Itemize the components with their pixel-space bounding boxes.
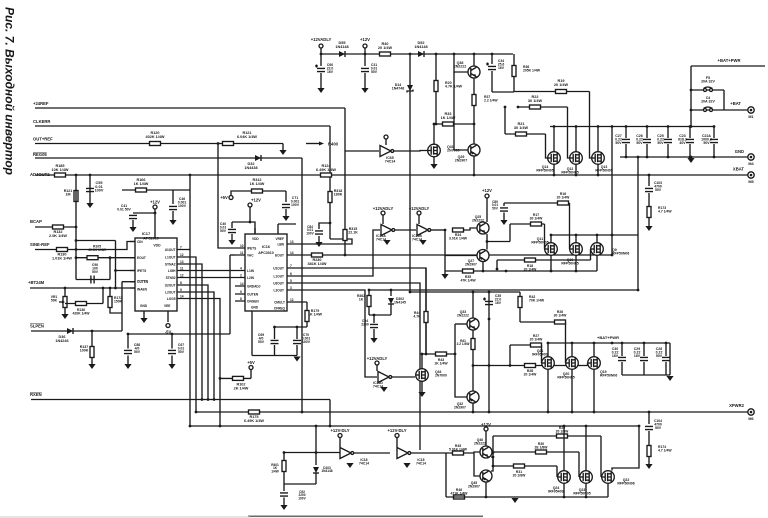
svg-text:R444.7K: R444.7K [413, 311, 421, 318]
svg-text:C300.2216V: C300.2216V [612, 347, 619, 358]
wire +5V riser [250, 370, 252, 378]
wire CLKERR drop [329, 126, 331, 239]
ground row2 [441, 274, 448, 279]
svg-text:C890.0150V: C890.0150V [492, 200, 499, 210]
resistor R31 [514, 464, 525, 468]
junction R102 [219, 377, 222, 380]
wire R18 net [497, 259, 591, 261]
wire row4 base col [445, 453, 447, 497]
ground IC16A [383, 240, 390, 245]
junction C104 [648, 411, 651, 414]
wire OUTEN feeder [122, 281, 135, 283]
junctions row3 top rail [409, 291, 491, 294]
wire Q25 emitter node [486, 234, 488, 250]
wire IC16A out [394, 229, 416, 231]
svg-text:APC2010: APC2010 [143, 237, 159, 241]
wire C104 lead [648, 412, 650, 424]
svg-text:IC17: IC17 [142, 231, 151, 236]
junction VDD [154, 212, 157, 215]
svg-text:XBAT: XBAT [733, 167, 745, 172]
wire R401 lead [283, 453, 285, 462]
wire R44 bottom [425, 323, 427, 355]
resistor R22 [530, 105, 541, 109]
wire row2 riser b [637, 157, 639, 290]
resistor R18 [525, 258, 536, 262]
mesh junctions [189, 398, 304, 427]
wire fuse column [690, 66, 692, 127]
junctions BCAP column [75, 239, 78, 259]
capacitor C90 [91, 276, 94, 284]
wire C92 lead [283, 484, 285, 491]
wire top rail [321, 53, 513, 55]
wire C46 bottom [172, 211, 174, 220]
wire row3 top rail [410, 291, 520, 293]
wire Q23 drain [585, 426, 587, 471]
junctions GND rail [625, 156, 716, 159]
wire R172 bottom [110, 308, 122, 314]
wire Q38 base [454, 54, 468, 72]
junction C94 [373, 314, 376, 317]
svg-text:VDD: VDD [252, 237, 259, 241]
svg-text:EOUT: EOUT [275, 254, 284, 258]
wire C67 bottom [171, 356, 173, 365]
wire +24REF to IC65 [345, 150, 379, 152]
power +12VADLY row4 b [387, 428, 406, 438]
op-amp U IC16 APC3010 box [245, 234, 287, 311]
wire R21 column [504, 107, 506, 134]
wire U1OUT drop [189, 175, 191, 426]
mosfet Q10 [570, 243, 583, 256]
junction +12V C40 [249, 221, 252, 224]
wire Q38 collector [473, 54, 475, 66]
ground R173 [645, 226, 652, 231]
wire C26 top lead [646, 127, 648, 139]
wire C27 top lead [625, 127, 627, 139]
inverter IC18A 74C14 [340, 448, 354, 459]
inverter IC65 74C14 [380, 146, 394, 157]
wire VEE lead [167, 311, 169, 322]
capacitor C60 [315, 65, 325, 72]
wire L2OUT drop [188, 292, 214, 400]
junctions row2 sources [482, 270, 578, 273]
wire C29 bottom lead [643, 362, 645, 375]
power +12VADLY row4 a [330, 428, 349, 438]
wire Q19 drain [593, 343, 595, 357]
mosfet Q20 [566, 357, 579, 370]
junctions row4 sources [485, 496, 588, 499]
svg-text:GND: GND [251, 306, 259, 310]
resistor R20 [434, 81, 438, 92]
svg-text:U1OUT: U1OUT [273, 267, 284, 271]
power +5V R312 [220, 195, 233, 200]
resistor R40 [380, 52, 391, 56]
wire RXEN bus [31, 399, 330, 401]
svg-text:+12V: +12V [482, 188, 492, 193]
svg-text:L3OUT: L3OUT [274, 289, 285, 293]
svg-text:VAC: VAC [247, 254, 254, 258]
svg-text:STN52: STN52 [166, 276, 176, 280]
transistor Q25 [477, 222, 489, 234]
ground row4 [511, 498, 518, 503]
wire CLKERR bus [35, 125, 330, 127]
wire Q27 base stub [445, 255, 477, 257]
svg-text:IPETS: IPETS [137, 269, 146, 273]
mosfet Q22 [602, 471, 615, 484]
wire Q45 base [474, 453, 480, 476]
wire CLKERR to LBN [288, 239, 352, 244]
mosfet Q9 [591, 243, 604, 256]
wire R17 riser [509, 224, 511, 242]
svg-text:VR150K: VR150K [51, 295, 58, 302]
wire C34 bottom [491, 71, 493, 92]
ground Q31 [430, 164, 437, 169]
wire row4 node riser [492, 436, 494, 466]
resistor R315 [343, 230, 347, 241]
junctions fuse column [690, 89, 693, 128]
resistor R174 [647, 446, 651, 457]
svg-text:IC1874C14: IC1874C14 [416, 458, 426, 465]
junction OUT+REF [217, 142, 220, 145]
svg-text:+12VADLY: +12VADLY [409, 206, 430, 211]
wire C90 right col [109, 258, 111, 280]
wire Q46 base [474, 452, 480, 453]
wire +24REF drop [344, 108, 346, 255]
wire R401 bottom rail [284, 483, 316, 485]
IC17 right pin stubs [177, 250, 188, 299]
capacitor CT1 [282, 204, 290, 207]
resistor R401 [282, 461, 286, 472]
wire C28 top lead [665, 343, 667, 356]
svg-text:C260.2250V: C260.2250V [636, 134, 643, 145]
capacitor C25 [664, 139, 672, 142]
svg-text:CIN: CIN [137, 240, 143, 244]
wire R312 net [237, 190, 286, 192]
wire R21 net [505, 133, 546, 135]
wire Q21 drain [547, 343, 549, 357]
ground C69 C70 [293, 357, 300, 362]
inverter IC16B 74C14 [417, 225, 431, 236]
wire R172 top [109, 288, 111, 296]
svg-text:+12VADLY: +12VADLY [373, 206, 394, 211]
wire CMULT rail [275, 326, 308, 328]
wire R22 net [518, 106, 568, 108]
wire Q10 source [575, 256, 577, 272]
wire REG05 bus [35, 157, 302, 159]
mosfet Q11 [545, 243, 558, 256]
wire R166 net [122, 189, 190, 191]
wire Q24 source [563, 484, 565, 498]
wire R20 column [435, 54, 437, 124]
wire SINE-REF bus [35, 249, 76, 251]
svg-text:L1OUT: L1OUT [165, 256, 176, 260]
wire IC65 top [385, 139, 387, 145]
capacitor C67 [168, 350, 176, 353]
wire U2OUT drop [188, 285, 208, 400]
potentiometer VR1 [63, 297, 67, 308]
wire R17 to Q11 gate [544, 224, 546, 249]
wire row3 node rail [473, 365, 588, 367]
diode D36 [67, 328, 73, 334]
wire +24REF bus [35, 107, 345, 109]
transistor Q38 [468, 66, 480, 78]
resistor R45 [453, 451, 464, 455]
wire C22A bottom lead [713, 144, 715, 157]
ground C84 [315, 242, 322, 247]
mosfet Q31 2N7000 [428, 144, 441, 157]
wire Q12 source [575, 165, 577, 176]
svg-text:U2OUT: U2OUT [165, 284, 176, 288]
IC16 top pin stubs [255, 224, 278, 234]
wire C84 bottom [318, 236, 320, 242]
IC16 left pin stubs [235, 248, 245, 301]
power +12VADLY top [311, 37, 332, 48]
junctions R401 rail [283, 451, 318, 454]
wire R22 to Q12 gate [568, 107, 570, 158]
capacitor C69 [271, 340, 279, 343]
wire R179 lead [306, 302, 308, 311]
power pin IC65 [384, 135, 388, 139]
wire R179 bottom [306, 322, 308, 328]
wire RXEN drop [329, 400, 331, 427]
wire LOG5 drop [188, 299, 220, 427]
svg-text:XPWR2: XPWR2 [729, 403, 745, 408]
svg-text:IPETS: IPETS [247, 247, 256, 251]
svg-text:SINE-REF: SINE-REF [30, 242, 50, 247]
wire Q29 base [454, 72, 468, 150]
capacitor C31 [361, 68, 369, 71]
wire VREF [278, 223, 296, 225]
wire C67 leads [171, 334, 173, 349]
wire R105 rail [76, 257, 110, 259]
svg-text:L1IN: L1IN [247, 269, 255, 273]
capacitor C55 [86, 188, 94, 191]
wire C26 bottom lead [646, 144, 648, 157]
diode D32 [255, 155, 261, 161]
wire R136 riser [102, 288, 104, 304]
svg-text:GND: GND [140, 304, 148, 308]
wire VDD lead [154, 209, 156, 238]
wire C27 bottom lead [625, 144, 627, 157]
wire Q46 collector [485, 431, 487, 446]
ground C67 [168, 364, 175, 369]
wire R27 net [510, 344, 542, 346]
wire R26 to Q20 gate [565, 322, 567, 363]
svg-text:C670.0150V: C670.0150V [178, 343, 185, 354]
wire R27 to Q21 gate [541, 345, 543, 363]
ground C88 [124, 364, 131, 369]
resistor R137 [90, 347, 94, 358]
wire C30 top lead [621, 343, 623, 356]
wire U3OUT net [288, 283, 420, 450]
wire C92 bottom [283, 498, 285, 506]
wire R16 net [504, 202, 570, 204]
capacitor C26 [643, 139, 651, 142]
transistor Q32 pnp [467, 391, 479, 403]
wire Q32 base tie [455, 324, 467, 397]
svg-text:VEE: VEE [164, 304, 170, 308]
transistor Q27 pnp [477, 250, 489, 262]
wire C84 lead [319, 223, 330, 229]
resistor R28 [525, 364, 536, 368]
capacitor C22A [710, 139, 718, 142]
transistor Q46 [480, 446, 492, 458]
svg-text:L2IN: L2IN [247, 276, 255, 280]
op-amp U IC17 APC2010 box [135, 238, 177, 311]
wire R42 lead [519, 292, 521, 297]
capacitor C94 [370, 324, 378, 327]
resistor R42 [518, 297, 522, 308]
wire C34 lead [491, 54, 493, 64]
wire R362 lead [368, 290, 370, 296]
wire Q9 source [596, 256, 598, 272]
wire Q10 drain [575, 235, 577, 243]
wire IC17 GND lead [143, 311, 145, 318]
capacitor C41 [129, 215, 137, 218]
capacitor C30 [618, 357, 626, 360]
wire L1OUT net [288, 230, 380, 276]
svg-text:SLPEN: SLPEN [30, 324, 44, 329]
svg-text:RXEN: RXEN [30, 392, 42, 397]
wire C69 lead [274, 327, 276, 339]
junctions drain rail row1 [553, 125, 716, 128]
wire Q25 collector [486, 198, 488, 222]
svg-text:R318180K: R318180K [334, 189, 343, 197]
wire R173 bottom [648, 218, 650, 227]
wire IC16B out [430, 229, 445, 231]
wire ADJOUT2 / XBAT bus [35, 174, 748, 176]
wire C40 bottom [231, 234, 233, 240]
wire VAC feeder [230, 254, 235, 256]
wire IC18A top [339, 438, 341, 448]
svg-text:GNDADJ: GNDADJ [247, 285, 261, 289]
junctions R362 D302 [368, 289, 640, 292]
capacitor C29 [640, 357, 648, 360]
svg-text:GND: GND [735, 149, 744, 154]
svg-text:+BAT+PWR: +BAT+PWR [597, 335, 619, 340]
wire R21 to Q14 gate [546, 134, 548, 158]
wire C104 bottom [648, 431, 650, 446]
svg-text:+12V: +12V [481, 422, 491, 427]
wire EOUT net [288, 254, 612, 256]
wire to R400 arrow [306, 143, 319, 145]
resistor R37 [472, 95, 476, 106]
capacitor C35 [483, 298, 493, 305]
svg-text:C290.2216V: C290.2216V [634, 347, 641, 358]
wire C25 bottom lead [667, 144, 669, 157]
ground row3 caps [666, 376, 673, 381]
power +12VADLY row2 a [373, 206, 394, 215]
resistor R120 [150, 142, 161, 146]
wire C103 bottom [648, 193, 650, 207]
ground Q34 [418, 392, 425, 397]
wire REG05 drop [301, 158, 303, 412]
svg-text:+12V: +12V [360, 37, 370, 42]
wire row4 source rail [446, 496, 608, 498]
svg-text:C280.2250V: C280.2250V [656, 347, 663, 358]
wire row2 node to R17 [487, 241, 510, 243]
svg-text:+12V: +12V [150, 200, 160, 205]
wire VAC riser [229, 255, 231, 334]
junction IPETS [114, 269, 117, 272]
svg-text:C104470050V: C104470050V [654, 419, 662, 430]
wire BCAP bus [35, 226, 76, 228]
wire row2 riser a [611, 127, 613, 256]
wire Q29 emitter [473, 156, 475, 175]
IC16 right pin stubs [287, 244, 288, 302]
resistor R26 [555, 320, 566, 324]
wire IC16A top [382, 215, 384, 224]
wire R137 top [91, 331, 93, 346]
wire Q38 emitter col [473, 78, 475, 144]
mosfet Q13 [592, 152, 605, 165]
resistor R173 [647, 207, 651, 218]
wire C4 net [691, 109, 748, 111]
junction R315 [344, 254, 347, 257]
wire +12VADLY lead [320, 48, 322, 54]
ground IC16D [380, 387, 387, 392]
junction D103 riser [315, 425, 318, 428]
power +12V top [360, 37, 370, 48]
power +12V IC17 [150, 200, 160, 210]
resistor R35 [463, 269, 474, 273]
resistor R230 [312, 253, 323, 257]
wire +5V riser [231, 191, 237, 196]
wire D103 bottom [315, 473, 317, 484]
wire +BAT+PWR top [691, 65, 765, 67]
resistor R130 [57, 248, 68, 252]
IC16 bottom stubs [251, 311, 253, 356]
svg-text:IC1874C14: IC1874C14 [359, 458, 369, 465]
junction SLPEN [91, 330, 94, 333]
wire R29 net [493, 435, 601, 437]
wire STN52 to L2IN [188, 277, 235, 279]
capacitor C84 [315, 231, 323, 234]
wire OUTEN column [121, 282, 123, 331]
wire C89 lead [503, 203, 505, 206]
junction EOUT feeder [109, 256, 112, 259]
svg-text:C250.2250V: C250.2250V [657, 134, 664, 145]
resistor R29 [557, 434, 568, 438]
terminal XBAT M5 [748, 172, 754, 184]
wire R17 net [510, 223, 545, 225]
wire D302 bottom [390, 304, 392, 315]
junctions drain rail row2 [550, 234, 614, 237]
wire OUT+REF bus [35, 143, 283, 145]
ground C55 [86, 203, 93, 208]
wire R19 to Q13 gate [590, 92, 592, 159]
capacitor C92 [280, 493, 288, 496]
capacitor C104 [645, 426, 653, 429]
ground VR1 [61, 314, 68, 319]
wire CT1 bottom [285, 209, 287, 216]
wire Q24 drain [563, 426, 565, 471]
junction R22 [517, 106, 520, 109]
wire Q11 source [550, 256, 552, 272]
svg-text:M6: M6 [748, 417, 753, 421]
wire CT1 lead [285, 191, 287, 202]
resistor R136 [76, 302, 87, 306]
scan artifact bottom [248, 516, 483, 518]
svg-text:CLKERR: CLKERR [33, 119, 50, 124]
svg-text:APC3010: APC3010 [258, 251, 274, 255]
svg-text:+5V: +5V [247, 360, 255, 365]
mosfet Q12 [570, 152, 583, 165]
svg-text:IC16: IC16 [262, 245, 270, 249]
wire R137 bottom [91, 358, 93, 365]
wire Q33 base tie [455, 323, 467, 325]
ground C94 [370, 338, 377, 343]
resistor R318 [328, 192, 332, 203]
